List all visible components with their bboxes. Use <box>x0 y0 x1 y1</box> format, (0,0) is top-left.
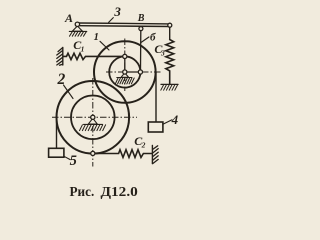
svg-text:5: 5 <box>70 153 77 169</box>
svg-text:3: 3 <box>113 4 121 19</box>
svg-text:4: 4 <box>171 112 179 127</box>
svg-text:Д12.0: Д12.0 <box>101 185 138 200</box>
svg-text:Рис.: Рис. <box>70 185 95 200</box>
svg-text:2: 2 <box>57 71 66 88</box>
svg-text:B: B <box>137 13 145 24</box>
svg-text:A: A <box>64 11 73 25</box>
svg-text:1: 1 <box>94 32 99 43</box>
